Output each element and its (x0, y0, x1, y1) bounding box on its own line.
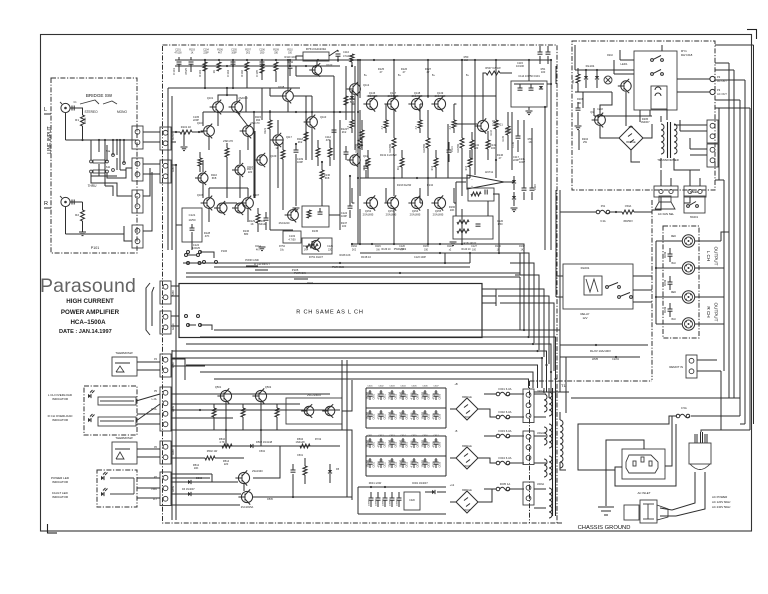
fan dots (523, 329, 557, 380)
svg-text:C610: C610 (373, 461, 375, 467)
PSU cap C6002 220/16 (389, 390, 398, 400)
PSU cap C6106 47/35 (433, 438, 442, 448)
svg-text:L-OL: L-OL (152, 398, 158, 401)
svg-text:C130: C130 (512, 141, 515, 147)
svg-text:C106: C106 (259, 50, 265, 52)
psu drop wire 4 (684, 197, 690, 203)
svg-text:4K7: 4K7 (256, 248, 261, 251)
bias labels (257, 219, 347, 228)
svg-text:47/25: 47/25 (184, 68, 188, 75)
lower output transistor Q152 (363, 195, 378, 216)
svg-text:AB5V: AB5V (172, 485, 175, 492)
emitter join rail (360, 177, 470, 179)
svg-text:1/50: 1/50 (260, 52, 265, 54)
svg-text:Q117: Q117 (286, 136, 293, 139)
cap C101 input (172, 57, 182, 75)
LINE INPUT vertical label (47, 126, 53, 154)
svg-text:390: 390 (256, 118, 261, 122)
connector P102-c (132, 190, 143, 213)
servo label (449, 205, 504, 226)
connector P105 (160, 354, 171, 377)
fan extra vertical (520, 277, 524, 330)
psu sec labels (450, 382, 458, 487)
svg-text:C605: C605 (428, 441, 430, 447)
svg-text:THRU: THRU (88, 184, 98, 188)
svg-text:2K2: 2K2 (352, 248, 357, 251)
resistor R507 6.8/1W (485, 66, 501, 75)
bl wire 4 (171, 474, 212, 482)
svg-text:C617: C617 (433, 435, 439, 437)
soft-start PSU dashed enclosure (572, 41, 715, 190)
drv resistor (486, 140, 497, 160)
svg-text:SPEED: SPEED (690, 191, 699, 194)
svg-text:THERMOSW: THERMOSW (115, 351, 132, 355)
wire vas (311, 104, 313, 140)
svg-text:STEREO: STEREO (84, 110, 98, 114)
PSU cap C6112 220/16 (389, 458, 398, 468)
wire L row (66, 139, 138, 141)
wire amp input (171, 132, 178, 142)
transformer T1 secondary winding 3 (544, 456, 552, 480)
svg-text:100/35: 100/35 (367, 411, 370, 419)
bus riser 2 (504, 253, 529, 336)
svg-text:R107: R107 (245, 50, 251, 52)
wire mirror (209, 188, 248, 222)
svg-text:C613: C613 (406, 413, 408, 419)
svg-text:RL001: RL001 (581, 266, 590, 270)
PSU cap C6012 220/16 (389, 410, 398, 420)
THRU label (88, 184, 98, 188)
svg-text:4.7K: 4.7K (219, 440, 225, 444)
svg-text:BRIDGE: BRIDGE (462, 489, 472, 492)
connector P102-b (132, 158, 143, 181)
label 2SK170 (223, 139, 233, 143)
amp rail2 extension (262, 111, 355, 113)
upper output transistor Q148 (408, 91, 423, 112)
right bus line x719 (715, 108, 724, 180)
bottom rail risers (445, 244, 520, 275)
line input tick L (44, 113, 51, 115)
svg-text:10/100: 10/100 (400, 439, 403, 447)
svg-text:C603: C603 (406, 393, 408, 399)
AC select switch body (624, 500, 668, 523)
Parasound logo (40, 275, 136, 297)
svg-text:BLK: BLK (671, 318, 676, 321)
svg-text:RY51 DHC233A: RY51 DHC233A (306, 47, 326, 51)
svg-text:AG5D: AG5D (172, 133, 175, 140)
lower rails to bottom (360, 209, 462, 244)
svg-text:R145: R145 (502, 135, 505, 141)
output relay RL001 box (563, 264, 633, 309)
relay coil box (651, 86, 667, 109)
label row top (284, 55, 296, 64)
svg-text:AG5D: AG5D (172, 323, 175, 330)
vertical wire c (254, 150, 256, 198)
svg-text:100/35: 100/35 (367, 439, 370, 447)
transformer T1 secondary winding 2 (544, 424, 552, 448)
upper output transistor Q147 (384, 91, 399, 112)
svg-text:6.3A: 6.3A (600, 219, 606, 223)
cap C102 (184, 57, 194, 75)
connector P107 (160, 441, 171, 464)
svg-text:C606: C606 (422, 386, 428, 388)
wire output rail 3 upper (427, 60, 429, 98)
psu conn wires (674, 120, 707, 155)
right bus line 5 (749, 108, 751, 430)
bottom bus line 2 (571, 397, 740, 399)
protection res extra (171, 444, 310, 460)
psu transistor Q201 (618, 79, 631, 93)
gnd mid (259, 208, 300, 251)
psu diode D202 (595, 70, 599, 88)
svg-text:BRIDGE SW: BRIDGE SW (86, 93, 113, 98)
svg-text:100: 100 (472, 248, 477, 251)
lower rail 4 (461, 160, 463, 196)
mono switch contact bar 1 (90, 160, 109, 163)
relay RY1 label (681, 49, 693, 57)
chassis ground trunk (606, 440, 625, 506)
protection zener (328, 464, 340, 483)
svg-text:L: L (44, 107, 47, 113)
output network 1 (665, 248, 673, 262)
led box wires (110, 478, 134, 494)
emitter resistor R142 0.22/5W (423, 110, 430, 160)
tail resistor R114 (225, 143, 229, 163)
svg-text:1N4148: 1N4148 (295, 440, 305, 444)
svg-text:220/16: 220/16 (389, 459, 392, 467)
svg-text:C501: C501 (297, 454, 304, 457)
svg-text:A05V: A05V (172, 290, 175, 296)
label block 2 (255, 115, 262, 122)
wires conn col link (143, 132, 160, 174)
c121 wires (176, 225, 211, 250)
svg-text:R210: R210 (607, 54, 613, 57)
grid labels row1 (367, 386, 439, 388)
wire output rail 2 upper (393, 60, 395, 98)
svg-text:47/50: 47/50 (378, 393, 381, 400)
mid comp b (325, 124, 337, 142)
svg-text:R13: R13 (466, 165, 468, 170)
psu transistor Q202 (590, 110, 605, 127)
L CH OUTPUT label (706, 247, 719, 266)
svg-text:Q501: Q501 (215, 385, 222, 389)
label block 5 (211, 173, 218, 180)
output network 2 (665, 276, 673, 290)
cap C111 (344, 146, 349, 160)
psu box left verticals (575, 45, 589, 150)
drawing border frame (41, 35, 752, 532)
svg-text:P3: P3 (717, 88, 721, 92)
IEC pins (633, 457, 652, 466)
right bus bottom link fuse (740, 423, 745, 425)
svg-text:RY51 DHC?: RY51 DHC? (309, 255, 324, 259)
post wires (656, 241, 682, 324)
remote wires (697, 360, 721, 371)
upper mid rail (462, 95, 496, 97)
label J1 (537, 390, 544, 486)
servo network box (468, 188, 494, 201)
PSU connector J2 (523, 431, 534, 465)
bottom bus line 1 (534, 391, 569, 393)
bias network box (302, 206, 329, 233)
svg-text:R/2W: R/2W (665, 279, 667, 286)
mirror Q106 (197, 193, 215, 210)
R CH SAME AS L CH label (296, 310, 363, 316)
psu bottom connector A (654, 186, 678, 197)
output dash spine (651, 200, 653, 380)
svg-text:2.2: 2.2 (464, 58, 468, 62)
svg-text:F005 1A: F005 1A (500, 482, 511, 486)
gap comp 1 (249, 208, 260, 232)
transformer T1 secondary winding 4 (549, 488, 552, 518)
resistor R109 string (260, 60, 264, 80)
ac switch inner (643, 504, 654, 519)
R-ch connector P104-b (160, 311, 171, 334)
svg-text:4.7/50: 4.7/50 (411, 460, 414, 468)
junction dots (204, 59, 500, 264)
chassis ground symbol (598, 507, 614, 515)
svg-text:BR1: BR1 (629, 126, 634, 129)
speaker SP1 icon (655, 196, 675, 209)
amp left edge vertical wires (175, 250, 177, 520)
mid transistor Q112 (347, 82, 370, 97)
svg-text:C605: C605 (428, 393, 430, 399)
bridge box wires2 (91, 158, 117, 186)
LED ribbon bar 2 (98, 417, 136, 426)
svg-text:2W: 2W (583, 140, 587, 144)
svg-text:SW001: SW001 (690, 216, 699, 219)
svg-text:BRIDGE: BRIDGE (462, 396, 472, 399)
label MC1 (464, 416, 471, 512)
svg-text:+12: +12 (450, 483, 455, 487)
label q505 area (223, 459, 274, 501)
mid comp a (297, 132, 308, 144)
svg-text:220/16: 220/16 (389, 391, 392, 399)
svg-text:RED: RED (671, 235, 676, 238)
svg-text:F003 6.3A: F003 6.3A (499, 429, 512, 433)
PSU cap C6101 47/50 (378, 438, 387, 448)
svg-text:100: 100 (541, 70, 546, 74)
cap C108 box (182, 208, 202, 242)
svg-text:C604: C604 (417, 393, 419, 399)
PSU cap C6102 220/16 (389, 438, 398, 448)
psu connector P21 (707, 120, 718, 143)
mid component 2 (364, 160, 369, 178)
string col labels (497, 153, 526, 164)
svg-text:100P: 100P (519, 160, 525, 164)
RCA jack J1 (L input) (60, 102, 70, 113)
bus stub rch 2 (498, 296, 549, 364)
svg-text:D502 1N4148: D502 1N4148 (256, 440, 273, 444)
wire q108 (270, 78, 288, 112)
gap comp 5 (198, 152, 202, 172)
upper rail labels 2 (364, 75, 470, 77)
svg-text:C121: C121 (189, 213, 196, 217)
snubber riser (528, 59, 530, 81)
LED D54 (101, 488, 108, 496)
wire diff pair upper (218, 88, 237, 101)
LED ribbon bar 1 (98, 397, 136, 405)
svg-text:AC 230V 50Hz: AC 230V 50Hz (712, 505, 731, 509)
protection pair box (286, 393, 342, 424)
psu wires 2 (575, 45, 626, 126)
PWR label 2 (288, 268, 300, 277)
svg-text:2SC2240: 2SC2240 (279, 221, 290, 225)
emitter resistor R140 0.22/5W (355, 110, 362, 160)
svg-text:R140 10: R140 10 (461, 248, 471, 251)
svg-text:450/50V: 450/50V (623, 219, 633, 223)
relay wires (614, 45, 667, 120)
grid plus marks (369, 392, 438, 460)
transistor Q109 (254, 153, 277, 167)
PSU cap C6116 47/35 (433, 458, 442, 468)
svg-text:C103: C103 (289, 234, 296, 238)
diff pair Q102 (229, 96, 249, 114)
psu transformer T2 primary (674, 124, 677, 154)
protection vert extra (226, 430, 280, 491)
psu labels left (577, 98, 583, 105)
label R0.22 row (380, 153, 397, 157)
PSU cap C6000 100/35 (367, 390, 376, 400)
CHASSIS GROUND label (578, 525, 631, 531)
svg-text:C611: C611 (384, 413, 386, 419)
svg-text:1K: 1K (250, 222, 253, 226)
rail to 551 dots (461, 59, 552, 61)
connector P108 (160, 472, 171, 506)
PSU cap C6100 100/35 (367, 438, 376, 448)
AC select wires (660, 508, 676, 516)
cap C104 (226, 62, 236, 77)
bus horizontal 7 (200, 372, 533, 388)
string col 518 (512, 120, 521, 152)
svg-text:RL101: RL101 (586, 64, 595, 68)
svg-text:2SA1695: 2SA1695 (363, 212, 374, 216)
svg-text:2SA1930: 2SA1930 (252, 469, 263, 473)
connector P103-b (amp edge) (160, 160, 171, 183)
svg-text:R001 1/2W: R001 1/2W (369, 482, 382, 485)
svg-text:47/35: 47/35 (433, 461, 436, 468)
wire R row (66, 226, 125, 241)
wire jack R to conn (124, 234, 132, 241)
psu connector P22 (707, 144, 718, 167)
cap C103 box (283, 231, 301, 243)
svg-text:Q111: Q111 (363, 154, 370, 158)
AC terminal 1 (710, 75, 727, 83)
svg-text:TRANSFORMER: TRANSFORMER (657, 158, 679, 162)
svg-text:Q1: Q1 (590, 110, 594, 114)
protection labels 3 (207, 438, 322, 453)
fuse row wires (560, 211, 652, 213)
svg-text:DHY218: DHY218 (681, 53, 693, 57)
svg-text:C105: C105 (255, 70, 259, 77)
POWER AMPLIFIER text (61, 309, 120, 316)
svg-text:R/2W: R/2W (665, 306, 667, 313)
svg-text:FLT: FLT (153, 498, 158, 501)
relay to fuse vertical (565, 357, 567, 413)
svg-text:R121: R121 (264, 127, 267, 134)
svg-text:P101: P101 (91, 246, 99, 250)
svg-text:1N4007: 1N4007 (640, 120, 650, 124)
svg-text:100/16: 100/16 (369, 499, 371, 506)
connector P102-d (132, 225, 143, 248)
svg-text:10/100: 10/100 (400, 391, 403, 399)
svg-text:1K: 1K (191, 52, 194, 54)
amp top rail V+ (175, 59, 375, 61)
svg-text:J003A: J003A (537, 483, 544, 486)
mid comp d (270, 120, 293, 162)
psu aux diode (425, 490, 446, 494)
input cap (70, 101, 78, 111)
upper transistor base wires (352, 104, 456, 112)
svg-text:R CH INPUT: R CH INPUT (254, 262, 270, 266)
gap comp 3 (320, 162, 331, 188)
svg-text:2SK170: 2SK170 (223, 139, 233, 143)
PSU cap C6004 4.7/50 (411, 390, 420, 400)
op-amp U101 AN711 (467, 170, 504, 189)
input shunt ground (181, 132, 188, 151)
protection transistor Q506 (238, 489, 253, 509)
svg-text:R106: R106 (240, 70, 244, 77)
svg-text:INDICATOR: INDICATOR (52, 397, 69, 401)
trim box VR101 (302, 238, 332, 259)
bus horizontal 2 (200, 337, 556, 388)
RL001 label (581, 266, 590, 270)
svg-text:A25V: A25V (172, 166, 175, 172)
svg-text:R101 1K: R101 1K (181, 125, 192, 129)
transformer T1 primary winding (560, 412, 566, 470)
bus horizontal 6 (186, 365, 538, 388)
PSU cap C6115 100/25 (422, 458, 431, 468)
output network 3 (665, 303, 673, 317)
cascode Q104 (197, 121, 215, 138)
resistor R2 (input R) (75, 210, 84, 221)
mid h-wire (296, 66, 334, 76)
bus horizontal 3 (186, 344, 551, 388)
protection diodes row (182, 477, 203, 496)
svg-text:R507 6.8/1W: R507 6.8/1W (485, 66, 501, 70)
bridge labels (106, 150, 111, 169)
R CH OUTPUT label (706, 303, 719, 322)
svg-text:47K: 47K (205, 234, 210, 238)
svg-text:R1: R1 (75, 118, 79, 122)
label L (left input) (44, 107, 47, 113)
svg-text:THERMOSW: THERMOSW (115, 436, 132, 440)
svg-text:Q152: Q152 (365, 209, 372, 213)
svg-text:4.7/50: 4.7/50 (411, 440, 414, 448)
input wire (171, 131, 203, 133)
label STEREO (84, 110, 98, 114)
svg-text:2K2: 2K2 (298, 140, 303, 144)
svg-text:P106: P106 (221, 249, 228, 253)
bus riser 1 (499, 244, 524, 330)
protection transistor Q504 (322, 404, 335, 418)
svg-text:100: 100 (491, 146, 496, 150)
remote wire join (720, 371, 722, 430)
svg-text:10/100: 10/100 (400, 459, 403, 467)
wire q112 (354, 66, 356, 110)
svg-text:100/25: 100/25 (192, 246, 200, 250)
PSU cap C6016 47/35 (433, 410, 442, 420)
mid wires (240, 96, 306, 198)
amp left long verticals (168, 88, 172, 250)
svg-text:R103: R103 (189, 50, 195, 52)
PSU cap C6114 4.7/50 (411, 458, 420, 468)
svg-text:2SA970: 2SA970 (238, 96, 248, 100)
base resistor R151 (381, 112, 388, 133)
svg-text:1K: 1K (212, 70, 216, 74)
svg-text:BLK: BLK (671, 262, 676, 265)
svg-text:S1a: S1a (106, 150, 111, 153)
